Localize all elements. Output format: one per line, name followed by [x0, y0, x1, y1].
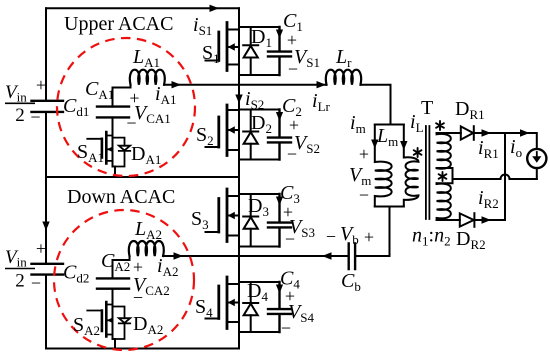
svg-text:+: +	[36, 75, 46, 95]
polarity star secondary mid	[439, 172, 447, 181]
svg-text:iS2: iS2	[245, 88, 264, 112]
svg-text:VS2: VS2	[294, 132, 320, 156]
diode D2	[243, 110, 258, 160]
svg-text:DR1: DR1	[455, 98, 485, 122]
capacitor C4	[239, 282, 291, 332]
capacitor CA2	[97, 256, 130, 305]
wire top rail	[46, 7, 239, 9]
capacitor Cd2	[32, 264, 64, 275]
capacitor C3	[239, 194, 291, 247]
wire mid rail lower (S3/S4 node to Cb)	[163, 255, 348, 257]
svg-text:S3: S3	[191, 208, 209, 232]
wire center tap line with hop	[453, 175, 537, 180]
capacitor C1	[239, 27, 291, 75]
wire Cb to transformer bottom	[355, 207, 389, 257]
arrow iLr	[317, 81, 327, 88]
arrow iR2	[482, 216, 492, 223]
svg-text:io: io	[510, 136, 522, 160]
diode DA1	[113, 138, 131, 167]
inductor Lr	[326, 70, 361, 85]
svg-text:DA2: DA2	[133, 313, 163, 337]
polarity star primary	[414, 148, 422, 157]
wire Lm branch top	[375, 124, 404, 126]
svg-text:D1: D1	[251, 26, 272, 50]
arrow Cb current	[322, 252, 332, 259]
arrow iL	[400, 141, 407, 150]
svg-text:Cd2: Cd2	[63, 262, 89, 286]
transformer primary winding	[404, 125, 419, 207]
wire DR2 up to output	[474, 133, 505, 220]
svg-text:Cb: Cb	[341, 270, 361, 294]
svg-text:VS4: VS4	[288, 301, 314, 325]
inductor LA2	[129, 241, 164, 256]
svg-text:S4: S4	[195, 296, 213, 320]
svg-text:+: +	[364, 227, 374, 247]
svg-text:Upper ACAC: Upper ACAC	[64, 13, 173, 35]
wire SA2 to bottom rail	[114, 339, 116, 349]
transformer secondary bottom winding	[437, 183, 451, 220]
wire left rail lower	[45, 177, 47, 349]
svg-text:−: −	[287, 144, 297, 164]
wire left rail upper	[45, 8, 47, 177]
wire secondary bottom to DR2	[437, 219, 460, 221]
inductor LA1	[130, 70, 165, 85]
wire bottom rail	[46, 348, 239, 350]
svg-text:S1: S1	[202, 42, 220, 66]
svg-text:n1:n2: n1:n2	[412, 225, 451, 249]
diode DR1	[461, 126, 474, 140]
svg-text:SA2: SA2	[73, 314, 100, 338]
svg-text:SA1: SA1	[77, 141, 104, 165]
current source io	[527, 149, 546, 168]
wire SA1 to divider	[114, 167, 116, 178]
arrow iR1	[482, 129, 492, 136]
svg-text:iR2: iR2	[478, 187, 499, 211]
transistor SA2	[87, 302, 112, 339]
wire mid rail upper (S1/S2 node to Lr)	[164, 84, 327, 86]
svg-text:DA1: DA1	[131, 143, 161, 167]
svg-text:im: im	[350, 112, 366, 136]
diode D4	[243, 282, 258, 332]
svg-text:Down ACAC: Down ACAC	[67, 186, 175, 208]
wire load bottom	[536, 168, 538, 179]
svg-text:D4: D4	[247, 280, 268, 304]
transistor S3	[206, 189, 240, 242]
svg-text:iR1: iR1	[478, 137, 499, 161]
transistor S4	[206, 277, 240, 329]
wire Lm branch bottom	[375, 206, 404, 208]
capacitor Cb	[349, 243, 355, 269]
wire node vertical S1-S4 leg	[238, 8, 240, 348]
arrow iS1 on top rail	[210, 5, 220, 12]
svg-text:−: −	[288, 59, 298, 79]
svg-text:+: +	[36, 239, 46, 259]
capacitor C2	[239, 110, 291, 160]
svg-text:iS1: iS1	[193, 14, 212, 38]
wire secondary top to DR1	[437, 132, 461, 134]
svg-text:−: −	[281, 318, 291, 338]
capacitor CA1	[97, 85, 131, 136]
svg-text:CA1: CA1	[85, 78, 114, 102]
transistor SA1	[87, 132, 112, 167]
transistor S1	[206, 23, 240, 71]
diode DR2	[460, 213, 475, 227]
svg-text:−: −	[285, 229, 295, 249]
diode D3	[243, 194, 258, 247]
wire divider rail	[46, 176, 239, 178]
diode DA2	[113, 307, 131, 340]
transistor S2	[206, 105, 240, 156]
transformer secondary top winding	[437, 133, 451, 169]
label Vin upper fraction	[5, 82, 35, 126]
svg-text:CA2: CA2	[101, 250, 130, 274]
svg-text:−: −	[31, 273, 41, 293]
svg-text:−: −	[326, 227, 336, 247]
svg-text:LA1: LA1	[132, 46, 160, 70]
svg-text:Vb: Vb	[340, 223, 359, 247]
capacitor Cd1	[32, 101, 64, 112]
arrow im	[371, 140, 378, 149]
arrow io	[520, 129, 530, 136]
svg-text:−: −	[359, 185, 369, 205]
arrow iA1	[172, 81, 182, 88]
diode D1	[243, 27, 258, 75]
arrow iS2	[235, 95, 242, 104]
wire after Lr to transformer	[361, 85, 391, 125]
svg-text:2: 2	[15, 105, 25, 126]
arrow iA2	[174, 252, 184, 259]
svg-text:+: +	[359, 144, 369, 164]
svg-text:DR2: DR2	[456, 228, 486, 252]
red dashed circle lower ACAC cell	[54, 210, 194, 350]
svg-text:S2: S2	[196, 124, 214, 148]
label Vin lower fraction	[5, 247, 35, 292]
svg-text:iLr: iLr	[312, 90, 331, 114]
transformer core	[426, 126, 430, 219]
svg-text:Vin: Vin	[5, 82, 27, 105]
wire DR1 to load	[474, 133, 537, 149]
svg-text:D2: D2	[251, 112, 272, 136]
transformer center tap	[437, 168, 453, 183]
svg-text:Lm: Lm	[376, 125, 398, 149]
polarity star secondary top	[436, 121, 444, 130]
svg-text:D3: D3	[248, 195, 269, 219]
svg-text:−: −	[133, 288, 143, 308]
svg-text:T: T	[421, 97, 433, 119]
svg-text:LA2: LA2	[134, 218, 162, 242]
svg-text:Lr: Lr	[335, 46, 352, 70]
svg-text:Vin: Vin	[5, 247, 27, 270]
inductor Lm	[375, 125, 392, 207]
arrow left rail lower	[42, 222, 49, 231]
red dashed circle upper ACAC cell	[57, 38, 195, 176]
svg-text:2: 2	[15, 271, 25, 292]
svg-text:−: −	[30, 107, 40, 127]
svg-text:−: −	[126, 113, 136, 133]
